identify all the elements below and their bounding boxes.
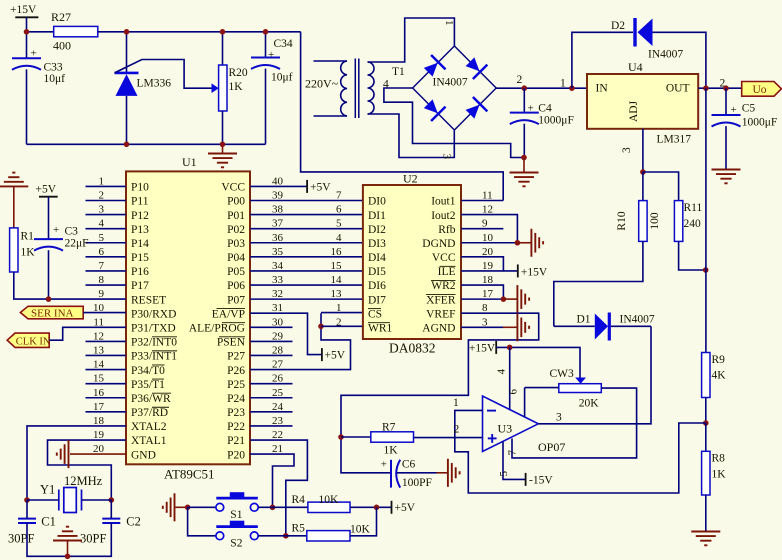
svg-text:1: 1 [336,302,342,314]
wire P03 to DI3 [250,242,363,244]
svg-text:P05: P05 [227,266,245,278]
svg-text:PSEN: PSEN [217,337,246,349]
wire ground stem [437,472,448,474]
svg-text:10K: 10K [319,494,340,506]
wire C1 top [26,500,28,519]
svg-text:P34/T0: P34/T0 [131,365,165,377]
svg-text:WR1: WR1 [368,323,393,335]
wire R10 bottom to D1 [554,241,643,326]
junction [515,240,521,246]
wire pin 2 input [414,437,483,439]
junction [318,324,324,330]
svg-text:D1: D1 [577,314,591,326]
wire R11 top [643,172,679,201]
capacitor C3 [34,239,63,251]
svg-text:R7: R7 [382,422,396,434]
svg-text:P31/TXD: P31/TXD [131,323,176,335]
wire P26 to CS [250,313,351,369]
svg-text:+5V: +5V [310,181,331,193]
svg-text:P20: P20 [227,449,245,461]
wire VREF to R7/C6 [341,313,539,473]
diode bridge D-a IN4007 [421,55,446,80]
wire C2 top [110,500,112,519]
svg-text:XFER: XFER [426,294,456,306]
junction [109,497,115,503]
wire secondary top to bridge pin1 [368,18,455,62]
switch S2 [216,521,258,539]
resistor R1 [10,228,18,272]
wire secondary bottom to bridge pin3 [368,114,455,158]
wire P05 to DI5 [250,270,363,272]
svg-text:R20: R20 [229,67,248,79]
svg-text:7: 7 [507,450,519,456]
junction [185,505,191,511]
diode bridge D-c IN4007 [421,96,446,121]
ground at GND pin [57,440,69,468]
svg-text:1K: 1K [229,81,244,93]
svg-text:15: 15 [331,260,343,272]
wire S2 right to R5 [258,535,307,537]
diode D2 IN4007 [635,18,653,47]
svg-text:6: 6 [508,389,520,395]
capacitor C6 [391,460,400,488]
wire to R7 [341,436,371,438]
junction [501,296,507,302]
svg-text:1K: 1K [712,469,727,481]
junction [46,296,52,302]
svg-text:CW3: CW3 [550,368,575,380]
wire U1 pin 16 stub [86,397,127,399]
svg-text:P22: P22 [227,421,245,433]
svg-text:P10: P10 [131,182,149,194]
svg-text:T1: T1 [392,66,405,78]
wiper arrow CW3 [575,378,586,384]
wire bridge pin4 to ground node [384,88,524,158]
svg-text:S1: S1 [230,509,242,521]
svg-text:4K: 4K [712,370,727,382]
wire U1 pin 7 stub [86,270,127,272]
svg-text:Iout1: Iout1 [431,196,456,208]
wire R8 bottom [705,495,707,531]
wire OUT to Uo [698,87,742,89]
svg-text:10μf: 10μf [271,72,293,84]
wire R20 bottom [222,111,224,144]
svg-text:14: 14 [331,274,343,286]
diode bridge D-b IN4007 [463,54,488,79]
svg-text:ADJ: ADJ [628,100,640,122]
svg-text:C2: C2 [126,515,141,529]
svg-text:16: 16 [331,246,343,258]
svg-text:1K: 1K [384,445,399,457]
svg-text:Iout2: Iout2 [431,210,456,222]
wire to CS pin [321,312,363,314]
svg-text:P03: P03 [227,238,245,250]
wire C5 top [725,88,727,115]
svg-text:EA/VP: EA/VP [212,308,245,320]
wire ground stem [222,144,224,153]
wire U1 pin 15 stub [86,383,127,385]
transformer T1 primary [314,61,348,116]
svg-text:30PF: 30PF [8,532,34,546]
svg-text:6: 6 [336,204,342,216]
wire pin 6 [524,388,526,417]
svg-text:+5V: +5V [36,184,57,196]
wire C33 top [26,32,28,59]
svg-text:240: 240 [684,218,702,230]
wire C34 top [265,32,267,58]
wire C4 top [523,88,525,112]
svg-text:-15V: -15V [529,475,553,487]
wire U1 pin 13 stub [86,354,127,356]
svg-text:+: + [31,48,37,60]
ground at C5 [712,170,741,184]
svg-text:DA0832: DA0832 [389,341,436,356]
wire U1 pin 17 stub [86,411,127,413]
svg-text:OUT: OUT [666,83,690,95]
wire XTAL2 to Y1 [27,426,126,500]
power +15V [15,17,38,32]
resistor R7 [371,432,414,442]
bridge rectifier diamond [413,46,497,130]
svg-text:P15: P15 [131,252,149,264]
wiper arrow R20 [212,83,219,93]
svg-text:P12: P12 [131,210,149,222]
wire Y1 left [27,499,59,501]
svg-text:+5V: +5V [325,350,346,362]
op-amp U3 triangle [483,396,539,452]
svg-text:220V~: 220V~ [305,77,339,91]
wire OUT down to R9 [705,88,707,352]
capacitor C1 [18,519,36,523]
svg-text:VCC: VCC [221,182,245,194]
ground at XFER [517,285,529,313]
wire op-amp pin 4 [509,347,511,410]
svg-text:C34: C34 [274,38,293,50]
svg-text:P26: P26 [227,365,245,377]
wire to D2 cathode [572,32,633,88]
wire VCC to ILE [461,257,503,271]
svg-text:R10: R10 [616,211,628,230]
svg-text:+15V: +15V [469,343,496,355]
svg-text:+: + [528,103,534,115]
svg-text:R11: R11 [684,202,703,214]
svg-text:10μf: 10μf [44,73,66,85]
junction [703,267,709,273]
ground above R1 [0,173,28,187]
svg-text:7: 7 [336,189,342,201]
wire +5V to C3 [48,197,50,239]
wire U1 pin 4 stub [86,228,127,230]
junction [124,142,130,148]
wire C4 bottom [523,124,525,158]
wire R9 to node [705,398,707,424]
svg-text:4: 4 [336,232,342,244]
svg-text:IN4007: IN4007 [648,49,683,61]
svg-text:400: 400 [53,39,71,53]
junction [703,85,709,91]
svg-text:P07: P07 [227,294,245,306]
svg-text:2: 2 [336,316,342,328]
svg-text:22μF: 22μF [65,238,89,250]
resistor R8 [702,451,710,495]
wire P02 to DI2 [250,228,363,230]
svg-text:XTAL1: XTAL1 [131,435,167,447]
wire AGND [461,326,503,328]
svg-text:U4: U4 [628,60,643,74]
wire LM336 adjust [115,60,212,89]
wire bottom rail [27,143,266,145]
wire C34 bottom [265,69,267,145]
wire R4 to +5V [350,506,392,508]
wire U1 pin 23 stub [250,425,293,427]
junction [124,29,130,35]
svg-text:IN: IN [596,83,609,95]
wire ground stem [517,242,531,244]
power -15V bar [525,473,527,486]
svg-text:DI1: DI1 [368,210,386,222]
wire top rail [98,31,301,33]
wire P06 to DI6 [250,284,363,286]
wire P07 to DI7 [250,298,363,300]
svg-text:WR2: WR2 [431,280,456,292]
junction [65,554,71,560]
wire R20 top [222,32,224,65]
resistor R27 [54,26,98,36]
wire P00 to DI0 [250,199,363,201]
ground at C6 [448,459,460,487]
svg-text:VCC: VCC [432,252,456,264]
capacitor C4 [510,113,539,125]
svg-text:+5V: +5V [395,502,416,514]
svg-text:1: 1 [453,397,459,409]
junction [270,505,276,511]
svg-text:Y1: Y1 [40,483,55,497]
wire XFER [461,298,503,300]
svg-text:R8: R8 [712,453,726,465]
junction [24,497,30,503]
svg-text:P13: P13 [131,224,149,236]
junction [220,29,226,35]
wire C3 bottom [48,250,50,299]
svg-text:SER INA: SER INA [31,307,74,319]
wire P21 to S2 [250,440,307,536]
svg-text:P01: P01 [227,210,245,222]
wire U1 pin 14 stub [86,369,127,371]
ground at R8 [691,532,720,546]
junction [521,155,527,161]
svg-text:2: 2 [517,74,523,86]
svg-text:P21: P21 [227,435,245,447]
svg-text:R5: R5 [292,523,306,535]
ground under R20 [208,154,237,168]
svg-text:P14: P14 [131,238,149,250]
svg-text:P06: P06 [227,280,245,292]
wire U1 pin 30 stub [250,326,293,328]
svg-text:P17: P17 [131,280,149,292]
svg-text:P25: P25 [227,379,245,391]
svg-text:P37/RD: P37/RD [131,407,168,419]
svg-text:R9: R9 [712,354,726,366]
wire C33 bottom [26,69,28,144]
wire ground stem [13,186,15,228]
wire U1 pin 3 stub [86,214,127,216]
svg-text:P33/INT1: P33/INT1 [131,351,177,363]
svg-text:C1: C1 [41,515,56,529]
svg-text:C4: C4 [538,103,552,115]
svg-text:C33: C33 [44,62,63,74]
resistor R5 [307,531,350,541]
microcontroller U1 AT89C51 [126,171,250,464]
wire U1 pin 29 stub [250,340,293,342]
svg-text:2: 2 [454,424,460,436]
DAC U2 DA0832 [363,185,461,339]
svg-text:+15V: +15V [10,4,37,16]
svg-text:S2: S2 [230,537,242,549]
wire P01 to DI1 [250,214,363,216]
wire C5 bottom [725,126,727,168]
svg-text:20K: 20K [579,398,600,410]
svg-text:P00: P00 [227,196,245,208]
svg-text:1K: 1K [21,247,36,259]
svg-text:Uo: Uo [753,84,767,96]
wire Iout2 to DGND [461,215,517,243]
svg-text:RESET: RESET [131,294,166,306]
junction [569,85,575,91]
wire bridge pin2 to LM317 IN [496,87,587,89]
wire U1 pin 26 stub [250,383,293,385]
junction [263,29,269,35]
capacitor C5 [712,115,741,127]
junction [220,142,226,148]
svg-text:U1: U1 [182,155,197,169]
wire output to D1 [538,326,651,424]
junction [723,85,729,91]
resistor R10 [639,201,647,242]
flag Uo [742,82,782,97]
svg-text:3: 3 [441,154,453,160]
svg-text:P11: P11 [131,196,149,208]
wire U1 pin 25 stub [250,397,293,399]
svg-text:DI4: DI4 [368,252,386,264]
flag CLK IN [7,333,49,347]
svg-text:C5: C5 [742,103,756,115]
svg-text:P16: P16 [131,266,149,278]
wire ground stem [503,298,517,300]
svg-text:5: 5 [336,218,342,230]
flag SER INA [20,306,83,319]
transformer T1 core [355,59,359,119]
svg-text:P27: P27 [227,351,245,363]
crystal Y1 [59,488,82,513]
wire ground stem [176,506,188,508]
svg-text:+: + [731,104,737,116]
wire U1 pin 24 stub [250,411,293,413]
svg-text:1: 1 [560,78,566,90]
wire P04 to DI4 [250,256,363,258]
wire to D1 anode [554,325,595,327]
capacitor C33 [12,58,41,70]
ground at S1 [163,493,175,521]
svg-text:P30/RXD: P30/RXD [131,308,176,320]
wire XTAL1 to Y1 [48,440,127,500]
wire R10 top [642,172,644,201]
wire U1 pin 6 stub [86,256,127,258]
svg-text:DI0: DI0 [368,196,386,208]
svg-text:IN4007: IN4007 [433,77,468,89]
wire D2 anode to OUT [653,32,706,88]
ground at C4 [510,173,539,187]
svg-text:P32/INT0: P32/INT0 [131,337,177,349]
svg-text:Rfb: Rfb [438,224,456,236]
wire VCC to +5V [250,185,307,187]
wire P20 to S1 [250,454,294,507]
svg-text:DI5: DI5 [368,266,386,278]
svg-text:U2: U2 [403,172,418,186]
wire ADJ pin 3 [642,129,644,172]
wire ground stem [523,158,525,173]
diode D1 IN4007 [595,313,610,341]
svg-text:P24: P24 [227,393,245,405]
svg-text:LM336: LM336 [137,78,172,90]
svg-text:AGND: AGND [422,323,455,335]
capacitor C2 [102,519,120,523]
svg-text:1000μF: 1000μF [742,117,778,129]
wire U1 pin 2 stub [86,199,127,201]
wire SER INA to pin10 [83,312,126,314]
wire to WR1 pin [321,325,363,327]
junction [640,169,646,175]
ground at AGND [517,313,529,341]
svg-text:ILE: ILE [438,266,456,278]
svg-text:1: 1 [443,20,455,26]
junction [507,345,513,351]
svg-text:+: + [53,224,59,236]
wire LM336 bottom [126,96,128,144]
svg-text:CLK IN: CLK IN [16,336,51,347]
wire C6 right [397,472,437,474]
junction [522,85,528,91]
wire GND pin [70,453,126,455]
svg-text:P36/WR: P36/WR [131,393,171,405]
svg-text:R1: R1 [21,231,35,243]
svg-text:D2: D2 [611,20,625,32]
svg-text:XTAL2: XTAL2 [131,421,167,433]
svg-text:100PF: 100PF [402,477,432,489]
junction [338,434,344,440]
wire to S1 left [188,506,216,508]
wire node to R8 [705,423,707,451]
wire Rfb stub [461,228,503,230]
wire pin1 to R9/R8 node [455,410,706,493]
junction [283,533,289,539]
svg-text:R27: R27 [51,10,71,24]
svg-text:P02: P02 [227,224,245,236]
wire ground stem [503,326,517,328]
svg-text:P35/T1: P35/T1 [131,379,165,391]
svg-text:DI7: DI7 [368,294,386,306]
svg-text:+: + [381,459,387,471]
wire ground stem [67,541,69,557]
svg-text:30PF: 30PF [80,532,106,546]
junction [703,420,709,426]
svg-text:CS: CS [368,308,382,320]
power +15V bar [517,264,519,277]
wire +15V to CW3 wiper [496,347,580,377]
wire U1 pin 12 stub [86,340,127,342]
svg-text:OP07: OP07 [538,440,565,454]
wire pin 5 [503,442,526,480]
wire C1 C2 bottom rail [27,523,111,556]
